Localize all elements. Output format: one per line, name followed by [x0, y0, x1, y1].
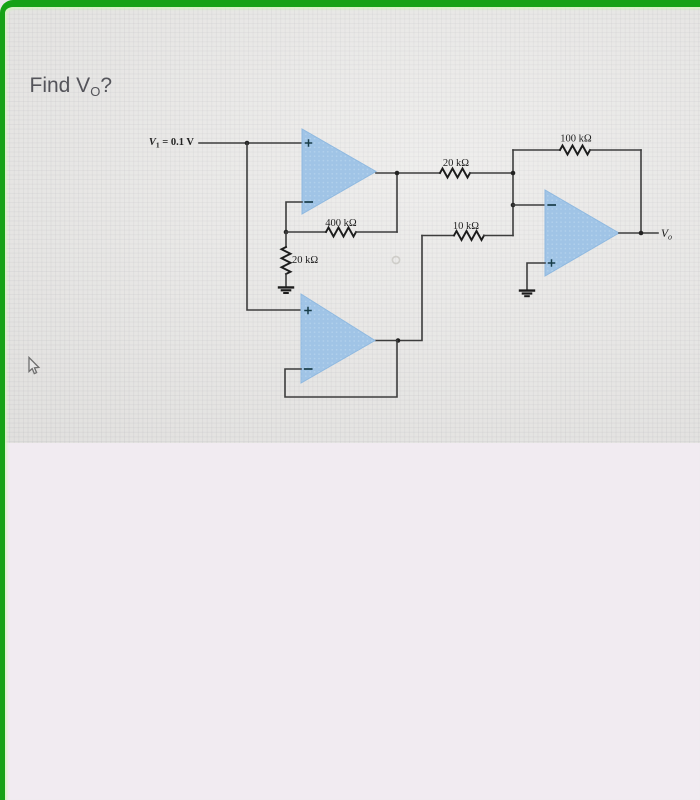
wire: U2 output to Vo terminal [619, 232, 658, 234]
resistor R3 20 kOhm (U1 output to summing node) [440, 169, 513, 178]
op-amp U1 body [302, 129, 376, 214]
paper background [0, 0, 700, 443]
node A junction (V1 splits to U1 and U3) [245, 141, 250, 146]
junction R3 at bus [511, 171, 516, 176]
resistor R5 10 kOhm (U3 output to summing node) [422, 231, 513, 240]
junction U2 inverting stub at bus [511, 203, 516, 208]
wire: bus to U2 inverting input [513, 204, 545, 206]
wire: U2 non-inverting input to ground [527, 263, 545, 290]
ground symbol below U2 + input [520, 291, 534, 297]
svg-text:20 kΩ: 20 kΩ [292, 255, 318, 266]
wire: U1 inverting input stub down to node B [286, 202, 302, 232]
svg-text:10 kΩ: 10 kΩ [453, 221, 479, 232]
U2 pin marker + (non-inverting) [549, 260, 555, 266]
title: Find Vo? [30, 75, 113, 96]
wire: R5 left end down to U3 output [375, 236, 422, 341]
U3 pin marker + (non-inverting) [305, 308, 311, 314]
wire: U1 output toward R3 [376, 172, 440, 174]
node E junction at U3 output (feedback tap) [396, 338, 401, 343]
svg-text:20 kΩ: 20 kΩ [443, 158, 469, 169]
faint stray ring artifact [392, 256, 399, 263]
ground symbol below R2 [279, 287, 293, 293]
resistor R1 400 kOhm (U1 feedback) [286, 228, 397, 237]
mouse cursor [29, 358, 39, 374]
wire: U3 unity feedback loop (inverting input to output) [285, 341, 397, 398]
U3 pin marker - (inverting) [305, 368, 312, 370]
node B junction (400k / 20k / U1 inverting) [284, 230, 289, 235]
node C junction at U1 output (feedback tap) [395, 171, 400, 176]
op-amp U3 body [301, 294, 375, 383]
wire: V1 source to U1 non-inverting input [199, 142, 302, 144]
wire: node A down and right to U3 non-inverting input [247, 143, 301, 310]
wire: R4 right end down to U2 output node [640, 150, 642, 233]
svg-text:400 kΩ: 400 kΩ [325, 218, 357, 229]
resistor R4 100 kOhm (U2 feedback) [513, 146, 641, 155]
U2 pin marker - (inverting) [548, 204, 555, 206]
op-amp U2 body [545, 190, 619, 276]
wire: R1 right end up to U1 output node [396, 173, 398, 232]
resistor R2 20 kOhm (node B to ground) [282, 232, 291, 287]
svg-text:100 kΩ: 100 kΩ [560, 134, 592, 145]
svg-text:Vo: Vo [661, 228, 672, 242]
label V1 = 0.1 V (input source) [149, 137, 195, 150]
U1 pin marker + (non-inverting) [306, 140, 312, 146]
wire: summing-node vertical bus [512, 150, 514, 236]
svg-text:V1 = 0.1 V: V1 = 0.1 V [149, 137, 195, 150]
node D junction (output / feedback) [639, 231, 644, 236]
U1 pin marker - (inverting) [305, 201, 312, 203]
